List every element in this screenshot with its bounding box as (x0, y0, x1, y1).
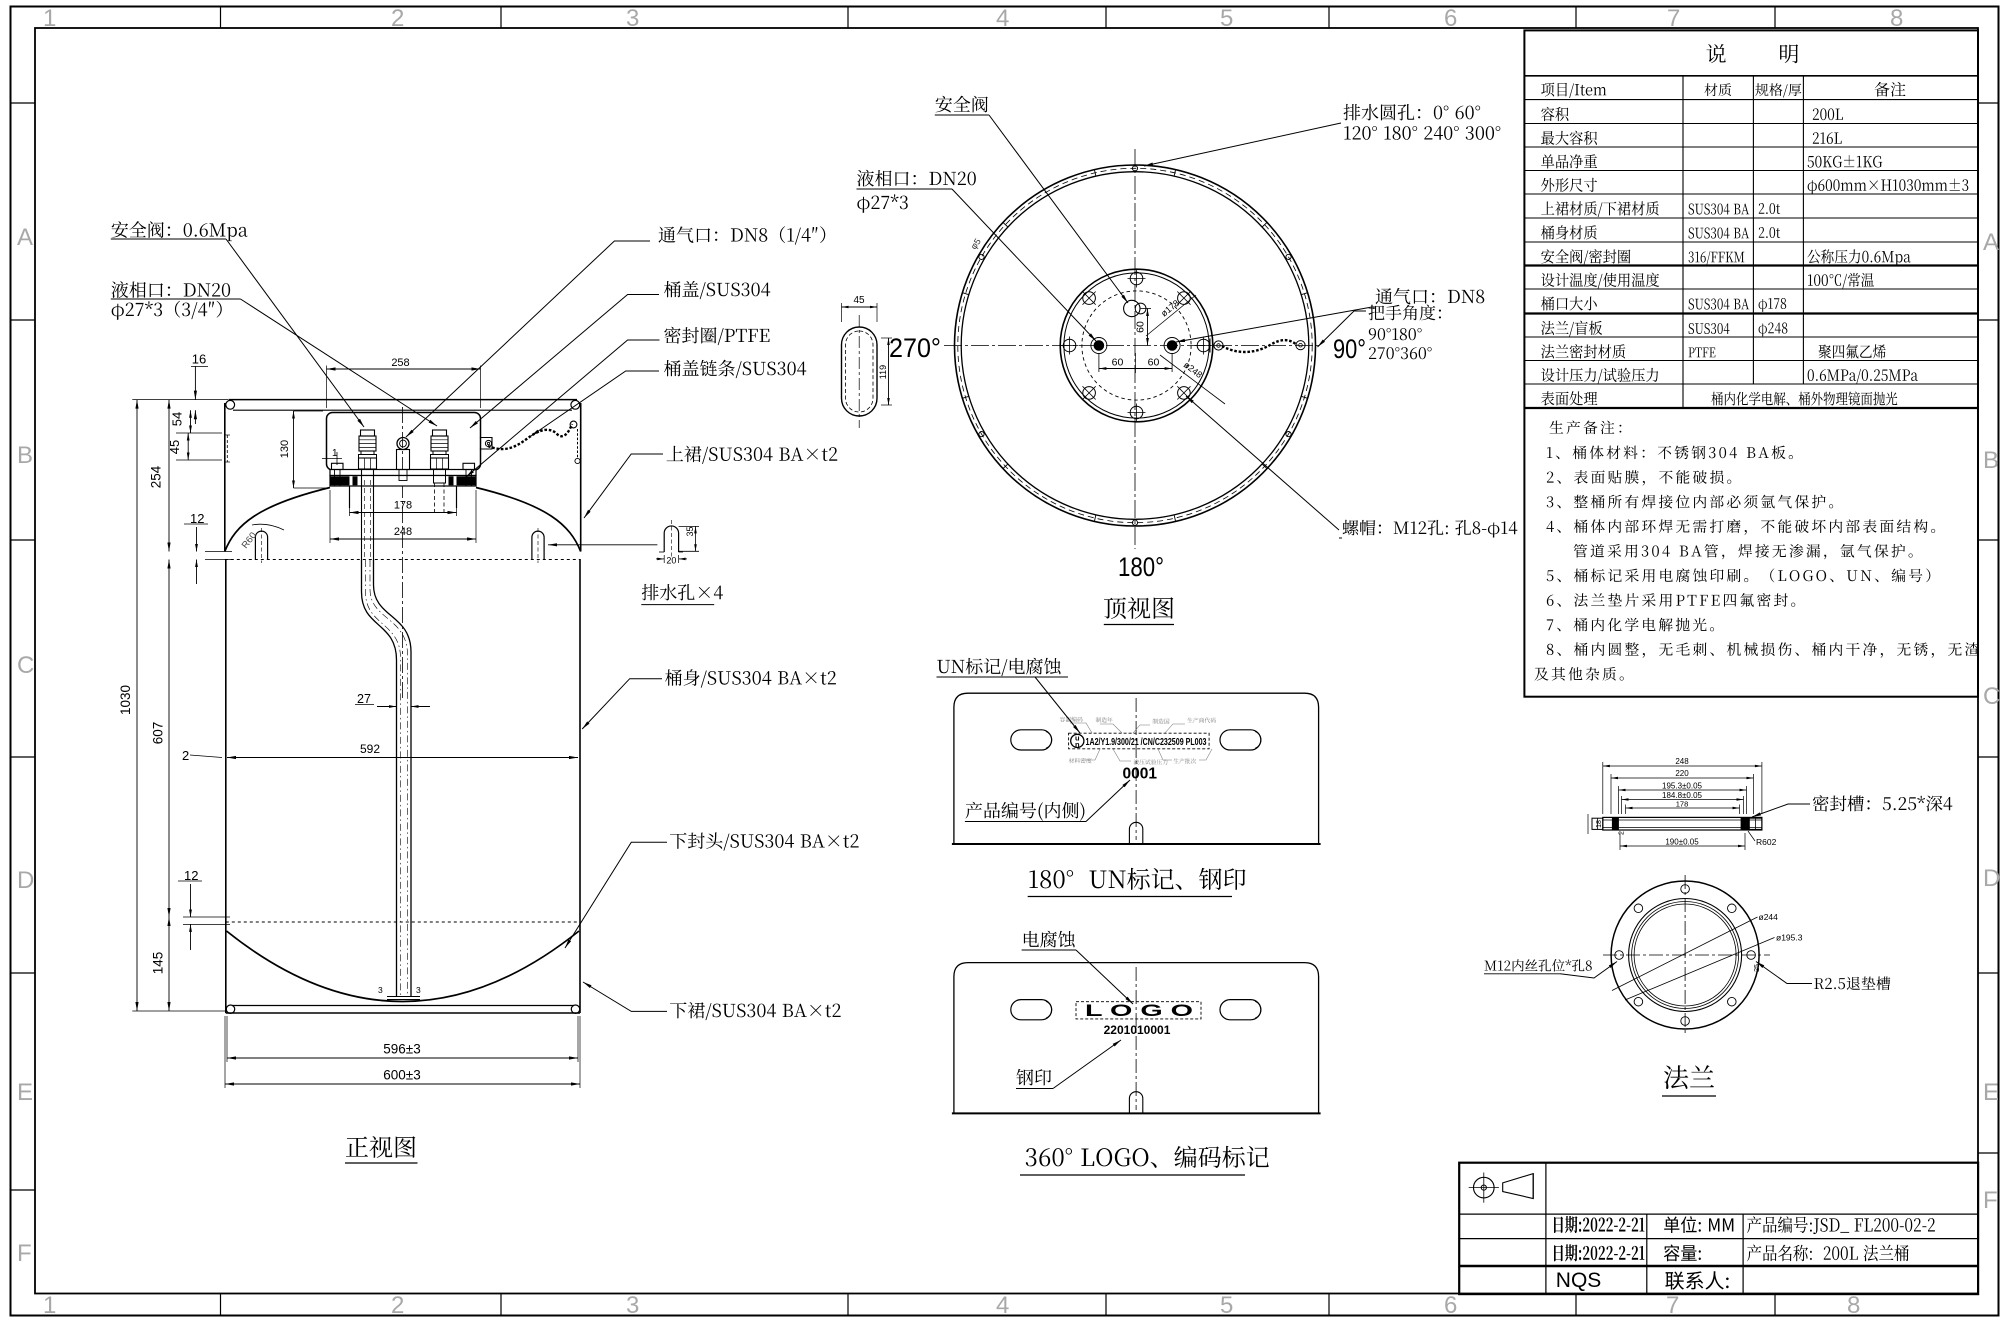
svg-text:119: 119 (878, 365, 888, 379)
svg-text:60: 60 (1112, 357, 1124, 369)
top view dim 60 60 horizontal (1098, 353, 1100, 372)
svg-text:195.3±0.05: 195.3±0.05 (1662, 782, 1703, 791)
label safety valve 0.6Mpa (112, 221, 248, 241)
spec table last row surface treatment (1541, 391, 1597, 405)
top view label liquid port (857, 170, 976, 187)
svg-text:n: n (1075, 740, 1080, 749)
front view bottom rim lines (232, 1005, 574, 1007)
svg-text:E: E (1983, 1079, 1999, 1106)
front view weld seam dashed line upper (225, 559, 581, 561)
svg-text:20: 20 (666, 556, 676, 566)
dim 1030 overall height (136, 400, 138, 1011)
label M12 tapped holes x8 (1485, 959, 1592, 971)
svg-text:1: 1 (43, 1292, 56, 1319)
label etched logo (1024, 931, 1075, 948)
label lid chain SUS304 (664, 360, 806, 378)
flange section left end block (1592, 818, 1603, 829)
front view rim curl right (571, 400, 580, 409)
handle profile detail left (842, 327, 878, 416)
top view outer rim circle (955, 165, 1316, 526)
front view lid cover box (327, 413, 481, 471)
drain slot detail magnified (664, 526, 678, 552)
svg-text:27: 27 (357, 692, 371, 706)
label seal ring PTFE (664, 327, 769, 345)
flange section dim 248 (1602, 762, 1604, 814)
grid reference ticks right edge (1978, 102, 1999, 104)
dim 248 flange (329, 490, 331, 543)
svg-text:2: 2 (182, 748, 189, 763)
spec table header row (1541, 83, 1606, 99)
top view dia 178 callout (1146, 295, 1196, 336)
caption 法兰 (1664, 1065, 1714, 1089)
svg-text:ø244: ø244 (1759, 912, 1779, 922)
grid reference ticks left edge (11, 102, 36, 104)
dim 45 (187, 433, 189, 460)
svg-text:4: 4 (996, 1292, 1009, 1319)
flange section dim 184.8 (1621, 796, 1623, 814)
dim 600 overall width (224, 1016, 226, 1088)
svg-text:54: 54 (170, 412, 185, 426)
svg-text:45: 45 (853, 295, 865, 306)
UN symbol circle (1071, 734, 1084, 747)
svg-text:F: F (1983, 1187, 1998, 1214)
svg-text:16: 16 (192, 352, 206, 367)
front view chain anchor bracket (480, 438, 492, 450)
UN plate left hole (1011, 730, 1052, 750)
svg-text:E: E (17, 1079, 33, 1106)
svg-text:3: 3 (416, 985, 421, 995)
label steel stamp (1016, 1069, 1051, 1086)
top view dia 248 callout (1160, 355, 1225, 404)
UN plate outline (954, 693, 1319, 844)
flange section dim 195.3 (1618, 786, 1620, 814)
top view label nut M12 (1343, 520, 1518, 538)
label drum body (665, 669, 836, 687)
flange circle dia 244 callout (1612, 917, 1758, 991)
label bottom head (670, 832, 859, 850)
dim 258 lid box top (326, 366, 328, 409)
flange circle bolt holes 8x (1681, 885, 1690, 894)
front view drum body left wall (225, 560, 227, 1014)
svg-text:180°: 180° (1118, 552, 1164, 582)
front view vent port fitting (397, 438, 409, 450)
front view dip tube descending with bend (362, 560, 397, 996)
LOGO plate left hole (1011, 1000, 1052, 1020)
svg-text:600±3: 600±3 (383, 1068, 420, 1083)
top view label handle angle (1369, 305, 1441, 321)
svg-text:A: A (1983, 229, 1999, 256)
svg-text:5: 5 (1220, 5, 1233, 32)
grid reference ticks bottom edge (220, 1294, 222, 1316)
svg-text:C: C (1983, 683, 2000, 710)
flange circle view outer (1611, 881, 1759, 1029)
front view bottom rim curl left (226, 1005, 234, 1013)
svg-text:25: 25 (1754, 964, 1761, 972)
LOGO plate right hole (1220, 1000, 1261, 1020)
title block product name cell (1747, 1245, 1909, 1262)
svg-text:248: 248 (394, 526, 412, 538)
front view lid chain to rim (488, 424, 572, 449)
flange section seal groove black left (1612, 818, 1619, 830)
flange section right end block (1749, 818, 1762, 829)
svg-text:90°: 90° (1333, 334, 1366, 364)
flange circle dia 195.3 callout (1625, 938, 1775, 1001)
handle profile dim 45 (841, 303, 843, 322)
dim 178 manhole (349, 490, 351, 516)
title block row and column lines (1459, 1213, 1978, 1215)
front view flange seal black right (457, 476, 476, 485)
svg-text:6: 6 (1444, 1292, 1457, 1319)
front view flange ring band (330, 476, 476, 487)
svg-text:35: 35 (685, 526, 695, 536)
front view drain slot left (255, 531, 267, 559)
LOGO plate centerline (1135, 967, 1137, 1110)
svg-text:1: 1 (43, 5, 56, 32)
LOGO plate outline (954, 963, 1319, 1114)
svg-text:18: 18 (1596, 820, 1603, 828)
LOGO plate bottom notch (1129, 1092, 1142, 1114)
dim 607 body height (168, 560, 170, 918)
front view chain rim eyelet (570, 421, 577, 428)
svg-text:A: A (17, 224, 33, 251)
top view liquid port right (1164, 338, 1180, 354)
dim 16 rim height (194, 366, 196, 399)
title block outer box (1459, 1163, 1978, 1294)
front view drum top rim line (229, 399, 578, 401)
svg-text:607: 607 (151, 722, 166, 745)
front view flange seal black left (331, 476, 350, 485)
svg-text:2: 2 (391, 5, 404, 32)
title block unit cell (1664, 1216, 1733, 1233)
front view lid bolt left (332, 463, 344, 469)
front view safety valve fitting (361, 430, 375, 436)
top view dim 60 vertical (1147, 309, 1149, 346)
svg-text:8: 8 (1847, 1292, 1860, 1319)
UN plate bottom notch (1129, 822, 1142, 844)
UN marking dashed box (1069, 733, 1210, 749)
svg-text:145: 145 (151, 952, 166, 975)
svg-text:ø195.3: ø195.3 (1776, 933, 1803, 943)
title block capacity cell (1664, 1245, 1701, 1262)
svg-text:270°: 270° (889, 333, 941, 363)
dim 145 lower skirt (168, 917, 170, 1011)
front view lid plate band (330, 470, 476, 476)
flange circle centerlines (1684, 875, 1686, 1035)
svg-text:596±3: 596±3 (383, 1042, 420, 1057)
flange section dim 220 (1610, 774, 1612, 814)
front view drum vertical centerline (402, 407, 404, 700)
dim 254 upper skirt (168, 400, 170, 552)
top view safety valve symbol (1124, 300, 1140, 316)
dim 12 weld gap lower (190, 884, 192, 917)
svg-text:2: 2 (391, 1292, 404, 1319)
svg-text:6: 6 (1444, 5, 1457, 32)
title block contact cell (1665, 1271, 1728, 1289)
front view top head dome curve right (476, 488, 581, 552)
svg-text:NQS: NQS (1556, 1269, 1602, 1292)
svg-text:130: 130 (279, 440, 291, 458)
front view manhole neck right wall (456, 487, 458, 509)
label UN mark etched (937, 658, 1060, 676)
label liquid port DN20 front (111, 281, 230, 298)
production notes text block (1550, 420, 1622, 434)
svg-text:D: D (1983, 865, 2000, 892)
svg-text:0001: 0001 (1123, 766, 1158, 783)
front view dip tube foot (387, 996, 420, 998)
svg-text:B: B (17, 442, 33, 469)
front view drain slot right (532, 531, 544, 559)
svg-text:258: 258 (391, 357, 409, 369)
title block projection symbol (1474, 1177, 1495, 1198)
svg-text:2201010001: 2201010001 (1104, 1023, 1171, 1037)
svg-text:254: 254 (149, 465, 164, 488)
spec table horizontal lines (1524, 75, 1978, 77)
front view top head dome curve left (225, 488, 330, 552)
svg-text:60: 60 (1135, 321, 1147, 333)
flange section seal groove black right (1741, 818, 1750, 830)
front view liquid port fitting (433, 430, 447, 436)
top view handle chain right (1222, 340, 1297, 352)
title block product code cell (1747, 1216, 1935, 1234)
grid reference ticks top edge (220, 7, 222, 29)
svg-text:C: C (17, 652, 34, 679)
svg-text:L O G O: L O G O (1085, 1002, 1193, 1020)
caption 180 UN mark steel stamp (1029, 868, 1245, 890)
front view upper skirt left wall (224, 403, 226, 552)
front view bottom head curve (227, 931, 580, 1002)
svg-text:8: 8 (1890, 5, 1903, 32)
svg-text:178: 178 (1676, 800, 1689, 809)
front view manhole neck left wall (349, 487, 351, 509)
svg-text:592: 592 (360, 742, 380, 756)
svg-text:3: 3 (626, 1292, 639, 1319)
top view inner rim circle (961, 172, 1309, 520)
top view label vent port (1376, 288, 1485, 304)
top view liquid port left (1091, 338, 1107, 354)
top view label safety valve (936, 96, 988, 113)
label drain holes x4 (642, 584, 723, 601)
spec table column lines (1682, 76, 1684, 408)
spec table title 说明 (1706, 44, 1725, 63)
flange circle view inner rings (1629, 899, 1742, 1012)
top view rim drain holes and lug ticks (1132, 166, 1137, 171)
dim 130 lid height (293, 411, 295, 488)
UN marking tiny field labels (1060, 717, 1083, 722)
caption 360 LOGO coding mark (1026, 1146, 1269, 1168)
UN marking tiny leader lines (1070, 723, 1092, 733)
dim 54 (190, 410, 192, 433)
svg-text:3: 3 (378, 985, 383, 995)
front view skirt seam mark left (226, 435, 228, 462)
label product serial inside (966, 802, 1085, 821)
title block date row 2 (1554, 1244, 1644, 1261)
flange section dim 190 below (1619, 833, 1621, 850)
svg-text:190±0.05: 190±0.05 (1665, 838, 1699, 847)
dim 596 skirt bottom width (226, 1016, 228, 1062)
label seal groove 5.25 depth 4 (1813, 795, 1952, 811)
front view rim curl left (226, 400, 235, 409)
front view liquid port hidden tube (434, 469, 446, 483)
svg-text:2: 2 (1619, 831, 1626, 835)
svg-text:D: D (17, 867, 34, 894)
svg-text:248: 248 (1675, 757, 1689, 766)
UN plate right hole (1220, 730, 1261, 750)
top view drum mouth dotted circle (1082, 291, 1191, 400)
svg-text:R602: R602 (1756, 837, 1777, 847)
top view manhole flange inner circle (1064, 273, 1209, 418)
svg-text:60: 60 (1148, 357, 1160, 369)
handle profile dim 119 (881, 337, 892, 339)
dim 592 inner width (227, 757, 578, 759)
svg-text:220: 220 (1675, 769, 1689, 778)
svg-text:1030: 1030 (118, 685, 133, 715)
label lid SUS304 (664, 281, 770, 299)
svg-text:F: F (17, 1240, 32, 1267)
top view horizontal centerline (944, 345, 1320, 347)
front view upper skirt right wall (580, 403, 582, 552)
top view caption 顶视图 (1104, 597, 1173, 619)
front view safety valve dip tube upper (361, 469, 363, 560)
svg-text:B: B (1983, 447, 1999, 474)
label vent port DN8 front (659, 226, 826, 244)
dim 12 weld gap upper (196, 527, 198, 552)
front view bottom rim curl right (571, 1005, 579, 1013)
leader from drain slot to detail (548, 544, 657, 546)
title block date row 1 (1554, 1216, 1644, 1233)
svg-text:178: 178 (394, 500, 412, 512)
flange cross section bar (1603, 817, 1762, 830)
front view drum body right wall (579, 560, 581, 1014)
top view vertical centerline (1134, 149, 1136, 549)
svg-text:7: 7 (1667, 5, 1680, 32)
svg-text:1A2/Y1.9/300/21 /CN/C232509 PL: 1A2/Y1.9/300/21 /CN/C232509 PL003 (1086, 737, 1207, 748)
label lower skirt (670, 1002, 841, 1020)
top view flange bolts (1130, 272, 1143, 285)
flange section dim 178 (1625, 805, 1627, 815)
LOGO dashed box (1076, 1002, 1201, 1019)
UN plate centerline (1135, 698, 1137, 840)
label upper skirt (667, 446, 838, 464)
top view manhole flange outer circle (1060, 269, 1213, 422)
label R2.5 groove (1814, 976, 1890, 990)
dim 27 tube width (377, 706, 397, 708)
front view weld seam dashed line lower (226, 921, 580, 923)
front view caption 正视图 (346, 1136, 415, 1158)
svg-text:4: 4 (996, 5, 1009, 32)
svg-text:5: 5 (1220, 1292, 1233, 1319)
top view label drain round holes (1344, 104, 1481, 121)
front view lid bolt right (463, 463, 475, 469)
spec table outer box (1524, 30, 1978, 696)
svg-text:7: 7 (1666, 1292, 1679, 1319)
svg-text:3: 3 (626, 5, 639, 32)
top view rim dashed circle (958, 168, 1312, 522)
spec table body rows text (1541, 107, 1568, 121)
